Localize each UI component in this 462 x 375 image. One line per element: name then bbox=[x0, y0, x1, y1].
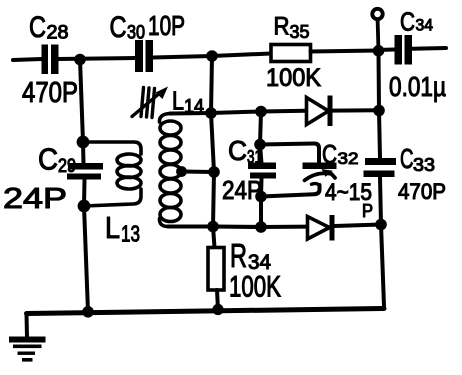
resistor R34 bbox=[213, 227, 215, 248]
inductor L13 bbox=[83, 142, 141, 206]
svg-text:C: C bbox=[29, 11, 46, 44]
capacitor C34 bbox=[395, 35, 413, 65]
wire: C32 bottom stub to bottom rail bbox=[261, 185, 320, 197]
resistor R35 bbox=[271, 45, 311, 62]
svg-text:C: C bbox=[38, 142, 58, 177]
node: junction C31 top rail bbox=[254, 139, 266, 151]
wire: mid vertical (C30 node down) bbox=[211, 56, 214, 227]
svg-text:31: 31 bbox=[247, 147, 262, 167]
adjustable core symbol (L14) bbox=[132, 88, 161, 118]
svg-text:C: C bbox=[322, 139, 337, 169]
node: junction top mid (to L14 branch) bbox=[206, 50, 218, 62]
wire: C33 branch bbox=[379, 111, 380, 159]
wire: C31 bottom to bottom rail node bbox=[259, 178, 264, 227]
wire: L14 tap bbox=[182, 170, 215, 175]
node: junction C29 top / L13 top bbox=[77, 136, 90, 149]
wire: ground stub bbox=[25, 314, 30, 338]
node: junction C29 bottom / L13 bottom bbox=[78, 200, 91, 213]
capacitor C30 bbox=[135, 40, 153, 72]
svg-text:100K: 100K bbox=[229, 271, 281, 304]
svg-text:14: 14 bbox=[184, 97, 204, 118]
svg-text:32: 32 bbox=[338, 149, 359, 168]
diode D-bottom (varactor) bbox=[261, 225, 308, 229]
svg-text:470P: 470P bbox=[398, 179, 446, 204]
svg-text:35: 35 bbox=[290, 22, 310, 42]
node: junction right vertical / top diode bbox=[373, 105, 385, 117]
wire: R35 to C34 node bbox=[311, 51, 379, 52]
wire: L14 top to diode node bbox=[170, 112, 261, 114]
wire: right vertical (C34 node to diode node) bbox=[377, 51, 382, 111]
node: junction bottom rail / left vertical bbox=[82, 306, 94, 318]
wire: C28 to C30 bbox=[59, 58, 137, 59]
wire: C34 to right edge bbox=[412, 46, 446, 51]
node: junction R35/C34/terminal bbox=[373, 45, 385, 57]
node: junction top diode left / C31 branch bbox=[255, 106, 267, 118]
svg-text:0.01µ: 0.01µ bbox=[389, 71, 446, 102]
node: L14 tap junction bbox=[176, 166, 187, 177]
capacitor C33 bbox=[364, 158, 397, 177]
svg-text:30: 30 bbox=[127, 23, 145, 44]
wire: top rail to C32 bbox=[260, 144, 319, 163]
wire: node to C34 bbox=[379, 48, 395, 53]
wire: input left to C28 bbox=[13, 59, 42, 60]
wire: terminal stub bbox=[376, 20, 381, 49]
svg-text:L: L bbox=[105, 210, 120, 245]
svg-text:P: P bbox=[362, 201, 373, 221]
wire: L14 bottom to bottom diode node bbox=[168, 225, 261, 230]
svg-text:C: C bbox=[400, 7, 415, 37]
wire: left vertical (C28 node down to C29) bbox=[80, 60, 83, 143]
capacitor C28 bbox=[42, 45, 59, 75]
node: junction C31 bottom rail bbox=[255, 191, 267, 203]
node: junction mid vertical / L14 top wire bbox=[205, 107, 217, 119]
inductor L14 bbox=[159, 114, 181, 227]
node: junction bottom rail / R34 bbox=[212, 304, 223, 315]
svg-text:24P: 24P bbox=[3, 183, 67, 215]
svg-text:29: 29 bbox=[58, 156, 76, 177]
svg-text:13: 13 bbox=[121, 221, 140, 247]
svg-text:10P: 10P bbox=[148, 10, 185, 41]
capacitor C32 (trimmer) bbox=[303, 163, 337, 170]
svg-text:100K: 100K bbox=[266, 64, 321, 92]
svg-text:24P: 24P bbox=[222, 175, 262, 205]
svg-text:C: C bbox=[228, 135, 247, 166]
ground bbox=[9, 337, 46, 362]
wire: C33 bottom to diode node bbox=[380, 177, 381, 225]
svg-text:34: 34 bbox=[416, 16, 434, 35]
node: junction bottom diode left bbox=[255, 221, 267, 233]
capacitor C31 bbox=[248, 163, 276, 179]
svg-text:R: R bbox=[230, 237, 247, 274]
node: junction mid vertical / L14 tap bbox=[208, 166, 220, 178]
svg-text:R: R bbox=[274, 13, 290, 41]
terminal (output post) bbox=[372, 9, 382, 19]
node: junction C28/C30/left branch bbox=[74, 54, 86, 66]
diode D-top (varactor) bbox=[261, 109, 306, 114]
wire: left vertical down to ground rail bbox=[84, 206, 88, 312]
capacitor C29 bbox=[67, 163, 103, 180]
node: junction mid vertical / L14 bottom wire bbox=[207, 221, 219, 233]
wire: C29 bottom plate to node bbox=[82, 180, 87, 206]
node: junction bottom diode right / C33 bottom bbox=[375, 219, 387, 231]
svg-text:C: C bbox=[110, 11, 127, 44]
wire: node to C29 top plate bbox=[81, 142, 86, 164]
svg-text:470P: 470P bbox=[22, 77, 78, 109]
svg-text:33: 33 bbox=[413, 155, 435, 175]
svg-text:L: L bbox=[172, 86, 184, 116]
svg-text:28: 28 bbox=[47, 23, 69, 44]
wire: right vertical down to bottom rail bbox=[381, 225, 384, 307]
svg-text:C: C bbox=[400, 143, 414, 174]
wire: bottom rail bbox=[27, 309, 385, 314]
wire: C31 branch vertical top bbox=[260, 112, 262, 164]
wire: C30 to R35 bbox=[153, 54, 271, 58]
